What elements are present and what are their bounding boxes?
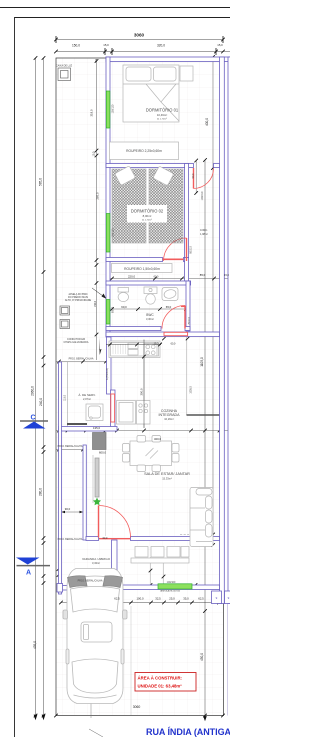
svg-text:A. 1,70m²: A. 1,70m²	[157, 118, 167, 121]
svg-text:DORMITÓRIO 02: DORMITÓRIO 02	[131, 209, 164, 214]
svg-text:240,0: 240,0	[39, 398, 43, 406]
svg-text:PROJ. BEIRAL/CALHA: PROJ. BEIRAL/CALHA	[58, 538, 83, 541]
svg-text:15,0: 15,0	[154, 343, 159, 346]
svg-text:100/100: 100/100	[167, 581, 176, 584]
svg-text:15,0: 15,0	[224, 274, 229, 277]
svg-text:285,0: 285,0	[96, 192, 100, 199]
svg-text:1,98m²: 1,98m²	[200, 232, 208, 236]
svg-text:3,43m²: 3,43m²	[92, 561, 100, 565]
svg-text:90,0: 90,0	[65, 507, 71, 511]
svg-text:Á. DE SERV.: Á. DE SERV.	[78, 393, 96, 397]
svg-text:PROJ. BEIRAL/CALHA: PROJ. BEIRAL/CALHA	[69, 358, 94, 361]
svg-text:90,0: 90,0	[192, 173, 195, 178]
svg-text:A: A	[26, 570, 31, 577]
svg-text:100,0: 100,0	[137, 597, 144, 601]
svg-text:ÁREA À CONSTRUIR:: ÁREA À CONSTRUIR:	[138, 676, 183, 681]
svg-text:220,0: 220,0	[128, 275, 135, 279]
svg-text:3,30m²: 3,30m²	[146, 317, 154, 321]
svg-text:150/120: 150/120	[112, 104, 115, 113]
svg-text:C: C	[30, 415, 35, 422]
svg-text:400,0: 400,0	[205, 118, 209, 126]
svg-text:CHAPA GALVANIZADA: CHAPA GALVANIZADA	[64, 341, 89, 344]
svg-text:ROUPEIRO 2,25x0,60m: ROUPEIRO 2,25x0,60m	[126, 149, 162, 153]
svg-text:2,07m²: 2,07m²	[83, 397, 91, 401]
svg-text:PROJ. BEIRAL/CALHA: PROJ. BEIRAL/CALHA	[58, 445, 83, 448]
svg-text:100/210: 100/210	[201, 191, 204, 200]
svg-text:318,0: 318,0	[90, 109, 94, 116]
svg-text:80/60: 80/60	[112, 306, 115, 313]
svg-text:15,0: 15,0	[103, 43, 109, 47]
svg-text:35,0: 35,0	[183, 597, 189, 601]
svg-text:150/120: 150/120	[112, 228, 115, 237]
svg-text:25,0: 25,0	[169, 597, 175, 601]
svg-text:32,5: 32,5	[155, 597, 161, 601]
svg-text:2060,0: 2060,0	[31, 386, 35, 396]
svg-text:3060: 3060	[134, 33, 145, 38]
svg-text:ROUPEIRO 1,50x0,60m: ROUPEIRO 1,50x0,60m	[124, 267, 160, 271]
svg-text:8,00m²: 8,00m²	[143, 214, 152, 218]
svg-text:320,0: 320,0	[154, 437, 161, 441]
svg-text:SALA DE ESTAR/ JANTAR: SALA DE ESTAR/ JANTAR	[144, 472, 190, 476]
svg-text:3060: 3060	[133, 705, 141, 709]
svg-text:80/210: 80/210	[190, 246, 193, 254]
svg-text:10,49m²: 10,49m²	[157, 113, 167, 117]
svg-text:600,0: 600,0	[99, 451, 106, 455]
svg-text:10,29m²: 10,29m²	[164, 417, 174, 421]
svg-text:585,0: 585,0	[39, 178, 43, 186]
svg-text:DORMITÓRIO 01: DORMITÓRIO 01	[146, 108, 179, 113]
svg-text:62,5: 62,5	[198, 597, 204, 601]
svg-text:JANELA ALTA 100/100: JANELA ALTA 100/100	[160, 590, 181, 593]
svg-text:115,0: 115,0	[64, 394, 67, 400]
svg-text:450,0: 450,0	[200, 653, 204, 661]
svg-text:60,0: 60,0	[121, 305, 127, 309]
svg-text:PROJ. BEIRAL/CALHA: PROJ. BEIRAL/CALHA	[78, 580, 103, 583]
svg-text:15,33m²: 15,33m²	[162, 477, 172, 481]
svg-text:60,0: 60,0	[103, 537, 108, 540]
svg-text:65,0: 65,0	[166, 305, 172, 309]
svg-text:85,0: 85,0	[200, 273, 206, 277]
svg-text:60,0: 60,0	[171, 343, 176, 346]
svg-text:CIRC.: CIRC.	[200, 228, 208, 232]
svg-text:VARANDA / ABRIGO: VARANDA / ABRIGO	[82, 557, 111, 561]
svg-text:A (TIJOLO): A (TIJOLO)	[106, 368, 109, 380]
svg-text:ALTO, P/ PRIVACIDADE: ALTO, P/ PRIVACIDADE	[65, 299, 92, 302]
svg-text:INTEGRADA: INTEGRADA	[159, 413, 181, 417]
svg-text:75/210: 75/210	[188, 317, 191, 325]
svg-text:300,0: 300,0	[140, 388, 144, 395]
svg-text:1005,0: 1005,0	[190, 386, 193, 394]
svg-text:150,0: 150,0	[94, 300, 97, 307]
svg-text:60,0: 60,0	[154, 276, 159, 279]
svg-text:RUA ÍNDIA (ANTIGA: RUA ÍNDIA (ANTIGA	[146, 727, 230, 737]
svg-text:435,0: 435,0	[33, 641, 37, 649]
svg-text:135,0: 135,0	[93, 426, 100, 430]
svg-text:15,0: 15,0	[217, 43, 223, 47]
svg-text:15,0: 15,0	[93, 151, 96, 156]
svg-text:A. 1,70m²: A. 1,70m²	[142, 219, 152, 222]
svg-text:BWC: BWC	[146, 313, 154, 317]
svg-text:1105,0: 1105,0	[200, 357, 204, 367]
svg-text:150,0: 150,0	[72, 44, 80, 48]
svg-text:UNIDADE 01: 63,48m²: UNIDADE 01: 63,48m²	[138, 684, 183, 689]
svg-text:280,0: 280,0	[39, 488, 43, 496]
svg-text:CAIXA DE LUZ: CAIXA DE LUZ	[56, 65, 73, 68]
svg-text:320,0: 320,0	[157, 44, 165, 48]
svg-text:62,5: 62,5	[114, 597, 120, 601]
